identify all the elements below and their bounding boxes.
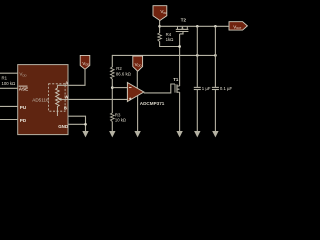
wire divider to comparator +in [112,87,128,89]
resistor R2 [111,66,132,79]
top rail VIN to VOUT [160,25,229,27]
supply tag VDD (above IC) [80,55,90,69]
wire comparator to ground [137,96,139,131]
comparator U2 ADCMP371 [127,83,164,106]
resistor R1 label [2,75,17,86]
resistor R4 [158,32,174,42]
capacitor C2 0.1uF [212,26,233,131]
supply tag VDD (comparator) [133,56,143,71]
ground arrow (C1) [194,131,200,137]
wire rail to R2 [111,55,113,67]
svg-text:10 kΩ: 10 kΩ [115,118,126,123]
svg-text:ASE: ASE [19,86,28,91]
supply tag VIN [153,6,167,21]
wire PD pin [0,119,18,121]
wiper arrow [58,98,68,101]
ground arrow (C2) [212,131,218,137]
ground arrow (IC) [82,131,88,137]
wire wiper W to comparator -in [68,98,128,100]
pin ASE label [19,86,28,91]
svg-text:R1: R1 [2,75,8,80]
wire R2 to R3 [111,79,113,113]
svg-text:A: A [65,80,68,85]
junction VDD rail C1 [196,54,199,57]
wire T1 drain [179,34,181,86]
svg-text:R2: R2 [116,66,122,71]
VDD rail (lower) [112,54,215,56]
wire comparator output to T1 gate [144,84,175,93]
transistor T2 (PMOS pass) [176,17,189,31]
potentiometer dashed box [49,84,66,111]
svg-text:PD: PD [20,118,27,123]
potentiometer element RDAC [56,85,60,116]
wire T2 gate [180,32,183,34]
ground arrow (comparator) [134,131,140,137]
svg-text:1 µF: 1 µF [202,86,211,91]
junction VDD rail C2 [214,54,217,57]
wire T1 source to ground [179,92,181,131]
svg-text:1kΩ: 1kΩ [166,37,175,42]
wire R3 to ground [111,122,113,132]
transistor T1 (NMOS) [173,77,179,93]
junction divider node [111,86,114,89]
wire VDD tag to comparator V+ [136,71,138,88]
output tag VOUT [229,22,247,30]
svg-text:ADCMP371: ADCMP371 [140,101,165,106]
svg-text:GND: GND [58,124,68,129]
svg-text:T1: T1 [173,77,179,82]
wire ASE pin [0,87,18,89]
IC U1 AD5116 body [18,65,68,135]
wire PU pin [0,105,18,107]
wire pin B to ground [68,116,86,131]
junction T2 gate node [178,45,181,48]
svg-text:AD5116: AD5116 [32,98,49,103]
svg-text:86.6 kΩ: 86.6 kΩ [116,72,132,77]
svg-text:PU: PU [20,105,27,110]
capacitor C1 1uF [194,26,211,131]
wire R1/VDD pin [0,72,18,74]
junction GND/B [84,123,87,126]
junction top rail C2 [214,25,217,28]
wire R4 to T2 gate node [160,42,180,47]
junction top rail C1 [196,25,199,28]
wire VDD tag to pin A [57,69,85,85]
svg-text:100 kΩ: 100 kΩ [2,81,17,86]
ground arrow (R3) [109,131,115,137]
junction VIN node [158,25,161,28]
svg-text:0.1 µF: 0.1 µF [220,86,233,91]
resistor R3 [111,113,126,123]
svg-text:VIN: VIN [160,9,166,15]
wire pin GND [68,123,86,125]
wire VIN stem [159,21,161,34]
ground arrow (T1) [176,131,182,137]
svg-text:T2: T2 [181,17,187,22]
